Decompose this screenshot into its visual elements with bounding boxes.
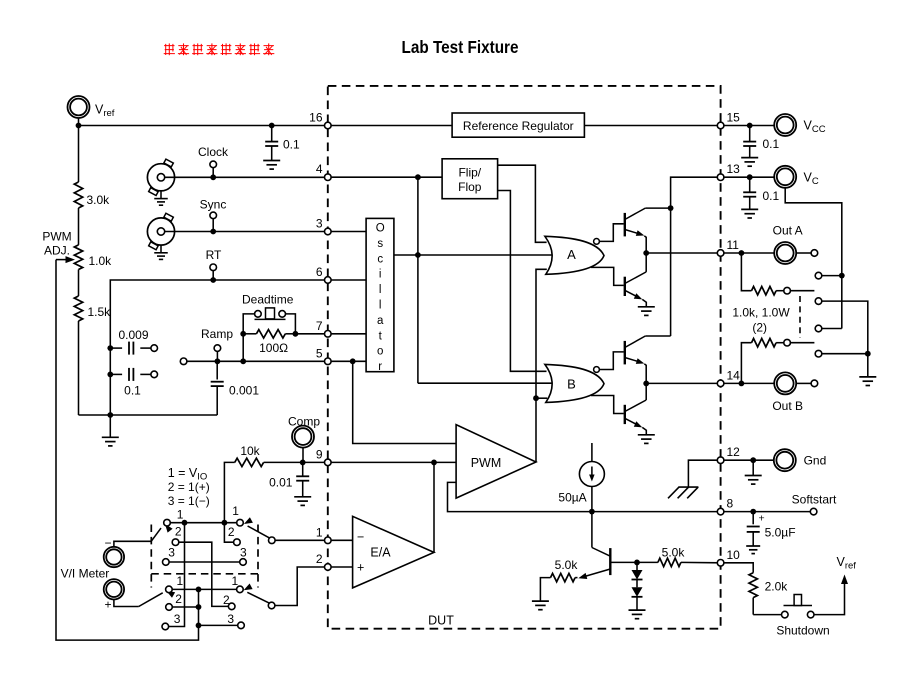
label + (5.0uF): [759, 513, 765, 525]
wire UL1-LL3 vertical: [169, 523, 185, 627]
connector VCC: [774, 114, 796, 136]
svg-text:2.0k: 2.0k: [765, 580, 789, 594]
pin 2: [316, 552, 331, 570]
chassis ground: [668, 487, 698, 498]
label 3.0k: [87, 193, 111, 207]
svg-text:2: 2: [316, 552, 323, 566]
svg-text:(2): (2): [752, 320, 767, 334]
svg-text:3: 3: [174, 612, 181, 626]
label UL 3: [168, 546, 175, 560]
ground (left bus): [102, 415, 119, 446]
label Vref: [95, 103, 115, 120]
contact LL3: [162, 623, 169, 630]
pole switch B: [784, 339, 791, 346]
contact LR3: [238, 622, 245, 629]
wire 2.0k to shutdown: [753, 614, 781, 616]
capacitor 0.1 (pin16): [263, 126, 280, 170]
stub Ramp: [216, 351, 218, 361]
capacitor 0.01: [294, 462, 311, 505]
svg-text:3: 3: [240, 545, 247, 559]
svg-text:Sync: Sync: [200, 198, 227, 212]
label PWM ADJ.: [42, 230, 71, 258]
label Gnd: [804, 453, 827, 467]
svg-text:1.0k, 1.0W: 1.0k, 1.0W: [732, 305, 790, 319]
junction E/A out / PWM in: [431, 460, 437, 466]
wire pin11 to Out A: [721, 252, 775, 254]
svg-text:2: 2: [175, 592, 182, 606]
wire pin4 bus to gate B: [418, 382, 553, 384]
NOR gate A: [545, 236, 604, 274]
contact LL1: [166, 586, 173, 593]
svg-text:6: 6: [316, 265, 323, 279]
connector Out A: [774, 242, 796, 264]
stub gate B lower input: [536, 397, 547, 399]
label UL 1: [177, 508, 184, 522]
label (2): [752, 320, 767, 334]
label Sync: [200, 198, 227, 212]
pin 15: [717, 111, 740, 129]
transistor QB1: [625, 336, 646, 383]
pin 8: [717, 497, 733, 515]
wire E/A output: [433, 462, 435, 552]
label switch legend: [168, 466, 210, 508]
label 10k: [240, 444, 260, 458]
svg-text:A: A: [567, 247, 576, 262]
wire throw2 to gnd rail: [822, 301, 868, 354]
svg-text:14: 14: [727, 368, 741, 382]
op-amp E/A: [353, 516, 434, 588]
svg-text:O: O: [376, 223, 385, 235]
svg-text:1: 1: [232, 574, 239, 588]
contact UL2: [172, 539, 179, 546]
wire pin8 to softstart: [721, 511, 811, 513]
svg-text:10: 10: [727, 548, 741, 562]
box Reference Regulator: [452, 113, 584, 137]
wire pin4 bus vertical: [417, 177, 419, 383]
svg-text:RT: RT: [206, 248, 222, 262]
svg-text:1: 1: [177, 574, 184, 588]
wire Out B to terminal: [796, 382, 811, 384]
label Out B: [772, 399, 803, 413]
junction ground bus / 1.5k: [107, 412, 113, 418]
pin 11: [717, 238, 739, 256]
stub Clock: [212, 168, 214, 178]
svg-text:Clock: Clock: [198, 145, 229, 159]
label LL 3: [174, 612, 181, 626]
svg-text:PWM: PWM: [42, 230, 71, 244]
wire pin3 to oscillator: [328, 231, 366, 233]
potentiometer 1.0k: [74, 245, 82, 270]
wire row1 lower: [172, 588, 236, 590]
resistor 3.0k: [74, 126, 82, 245]
resistor 5.0k (emitter): [532, 573, 578, 609]
title Lab Test Fixture: [402, 37, 519, 57]
svg-text:5.0µF: 5.0µF: [765, 526, 796, 540]
wire minus to selector: [114, 541, 151, 546]
connector V/I meter plus: [104, 579, 124, 599]
svg-text:Comp: Comp: [288, 415, 320, 429]
wire pin 9 rail: [303, 461, 328, 463]
ground QB2 emitter: [638, 435, 655, 444]
connector Gnd: [774, 449, 796, 471]
svg-text:0.009: 0.009: [118, 328, 148, 342]
svg-text:12: 12: [727, 445, 741, 459]
junction pin13 cap: [747, 174, 753, 180]
label LR 2: [223, 593, 230, 607]
svg-text:1.0k: 1.0k: [89, 254, 113, 268]
label UR 1: [232, 504, 239, 518]
BNC connector Clock: [147, 159, 174, 205]
wire pin7 to oscillator: [328, 333, 366, 335]
label Comp: [288, 415, 320, 429]
label 5.0uF: [765, 526, 796, 540]
capacitor 0.1 (VCC): [741, 126, 758, 167]
pin 16: [309, 111, 331, 129]
throw 3: [815, 325, 822, 332]
svg-text:a: a: [377, 315, 384, 327]
svg-text:5: 5: [316, 346, 323, 360]
ground QA2 emitter: [638, 307, 655, 316]
wire pin6 to oscillator: [328, 279, 366, 281]
resistor 5.0k (base): [637, 558, 721, 566]
connector Out B: [774, 372, 796, 394]
pin 10: [717, 548, 740, 566]
svg-text:Ramp: Ramp: [201, 327, 233, 341]
svg-text:13: 13: [727, 162, 741, 176]
wire pin5 to oscillator: [328, 360, 366, 362]
DUT dashed box: [328, 86, 721, 629]
selector arm upper-right: [244, 517, 270, 538]
selector arm lower-left: [139, 591, 175, 607]
lever switch A: [790, 290, 814, 292]
wire node A to pin 11: [646, 252, 720, 254]
wire pin16 to refreg: [328, 125, 452, 127]
svg-text:10k: 10k: [240, 444, 260, 458]
selector arm upper-left: [151, 524, 172, 541]
junction 0.1 left: [107, 372, 113, 378]
contact UR2: [234, 539, 241, 546]
wire Vref to pin 16: [79, 125, 328, 127]
svg-text:V/I Meter: V/I Meter: [61, 567, 110, 581]
svg-text:ADJ.: ADJ.: [44, 244, 70, 258]
label Shutdown: [776, 624, 829, 638]
pin 14: [717, 368, 740, 386]
svg-text:0.1: 0.1: [283, 138, 300, 152]
pole switch A: [784, 287, 791, 294]
wire ground bus to 0.001: [110, 414, 217, 416]
wire pin 5 rail: [187, 360, 328, 362]
capacitor 0.009: [110, 342, 151, 355]
junction deadtime/pin5: [240, 358, 246, 364]
wire pin5 to PWM ramp input: [353, 361, 456, 443]
resistor 1.5k: [74, 270, 82, 416]
contact UR1: [237, 519, 244, 526]
svg-text:15: 15: [727, 111, 741, 125]
pot wiper arrow: [56, 256, 75, 263]
label LR 3: [227, 612, 234, 626]
wire pivot to pin 1: [275, 539, 328, 541]
svg-text:7: 7: [316, 319, 323, 333]
wire pin4 to flipflop: [328, 176, 442, 178]
wire Out A to terminal: [796, 252, 811, 254]
comparator PWM: [456, 425, 536, 499]
label V/I Meter: [61, 567, 110, 581]
wire gate B lower tap: [591, 396, 624, 414]
label Ramp: [201, 327, 233, 341]
BNC connector Sync: [147, 213, 174, 259]
transistor QB2: [625, 400, 647, 435]
pushbutton Shutdown: [782, 595, 815, 618]
junction comp node: [300, 460, 306, 466]
junction out B: [739, 381, 745, 387]
junction 0.009 left: [107, 345, 113, 351]
wire deadtime left drop: [242, 334, 244, 362]
wire QB1 collector: [645, 335, 670, 337]
label 1.0k 1.0W: [732, 305, 790, 319]
wire shutdown to Vref arrow: [814, 583, 845, 615]
throw 2: [815, 298, 822, 305]
wire meter bus: [56, 260, 199, 640]
label Oscillator: [376, 223, 385, 374]
red watermark text: [164, 43, 275, 55]
svg-text:16: 16: [309, 111, 323, 125]
capacitor 0.1 (left): [110, 368, 151, 381]
linkage switch A-B dashed: [799, 296, 801, 338]
junction deadtime right: [293, 331, 299, 337]
label LL 1: [177, 574, 184, 588]
svg-text:+: +: [759, 513, 765, 525]
wire pivot to pin 2: [275, 567, 328, 606]
pin 13: [717, 162, 740, 180]
junction bus row3: [196, 623, 202, 629]
wire pwm out to gate A input: [536, 269, 547, 462]
junction Ramp stub: [215, 358, 221, 364]
svg-text:c: c: [377, 253, 383, 265]
label 0.01: [269, 475, 293, 489]
wire gate A bubble to upper base: [599, 224, 623, 242]
diode D1: [632, 562, 643, 579]
svg-text:DUT: DUT: [428, 614, 454, 628]
svg-text:E/A: E/A: [370, 545, 391, 559]
wire pin9 rail to PWM: [328, 461, 456, 463]
contact UL1: [164, 519, 171, 526]
svg-text:Shutdown: Shutdown: [776, 624, 829, 638]
wire VC to switch rail: [785, 188, 842, 329]
label VCC: [804, 119, 826, 136]
pin 4: [316, 162, 331, 180]
current source 50uA: [579, 443, 604, 512]
throw 4: [815, 350, 822, 357]
label 5.0k emitter: [555, 558, 579, 572]
resistor 100ohm: [243, 330, 295, 338]
junction Sync stub: [210, 229, 216, 235]
svg-text:50µA: 50µA: [558, 491, 586, 505]
junction 0.1 cap tap: [269, 123, 275, 129]
contact LR1: [237, 586, 244, 593]
throw 1: [815, 272, 822, 279]
capacitor 5.0uF: [746, 512, 760, 554]
svg-text:2: 2: [228, 525, 235, 539]
node output A: [643, 250, 649, 256]
junction pin15 cap: [747, 123, 753, 129]
terminal 0.009: [151, 345, 158, 352]
wire pin13 rail: [671, 177, 721, 336]
label Vref (right): [837, 555, 857, 572]
svg-text:PWM: PWM: [471, 456, 502, 470]
ground (pin12): [745, 460, 762, 484]
svg-text:8: 8: [727, 497, 734, 511]
junction pin4 bus: [415, 174, 421, 180]
junction out A: [739, 250, 745, 256]
test point RT: [210, 264, 217, 271]
svg-text:11: 11: [727, 238, 740, 252]
wire pin14 to Out B: [721, 382, 775, 384]
svg-text:Lab Test Fixture: Lab Test Fixture: [402, 37, 519, 57]
pin 12: [717, 445, 740, 463]
wire pin10 to 2.0k: [721, 563, 754, 573]
junction Vref node: [76, 123, 82, 129]
wire node B to pin 14: [646, 382, 720, 384]
stub RT: [212, 271, 214, 280]
svg-text:l: l: [379, 300, 382, 312]
svg-text:1: 1: [316, 525, 323, 539]
wire gate B bubble to upper base: [599, 352, 623, 370]
label Softstart: [792, 492, 837, 506]
label 50uA: [558, 491, 586, 505]
label LL 2: [175, 592, 182, 606]
svg-text:i: i: [379, 269, 382, 281]
wire QA2 collector: [645, 253, 647, 272]
wire QB2 collector: [645, 383, 647, 400]
test point Clock: [210, 161, 217, 168]
wire throw4 to gnd rail: [822, 353, 868, 355]
junction 50uA / softstart: [589, 509, 595, 515]
svg-text:5.0k: 5.0k: [662, 546, 686, 560]
wire throw3 to VC rail: [822, 328, 842, 330]
wire pin1 to E/A inv: [328, 539, 353, 541]
pushbutton Deadtime: [243, 308, 295, 334]
svg-text:+: +: [105, 598, 112, 612]
label DUT: [428, 614, 454, 628]
svg-text:1: 1: [232, 504, 239, 518]
svg-text:Out A: Out A: [773, 224, 803, 238]
svg-text:o: o: [377, 346, 383, 358]
contact UL3: [163, 559, 170, 566]
label Clock: [198, 145, 229, 159]
svg-text:+: +: [357, 561, 364, 575]
wire row3 lower: [199, 624, 238, 626]
label minus: [105, 536, 112, 550]
wire row1 upper: [170, 522, 236, 524]
wire row2 lower: [172, 606, 198, 608]
wire plus to selector: [114, 600, 139, 607]
wire pin2 to E/A noninv: [328, 566, 353, 568]
wire pin12 to Gnd: [721, 459, 775, 461]
box Oscillator: [366, 218, 394, 371]
wire gate A lower tap: [591, 267, 624, 285]
svg-text:Out B: Out B: [772, 399, 803, 413]
wire oscillator output: [394, 254, 418, 256]
junction bus row2: [196, 604, 202, 610]
contact LR2: [228, 603, 235, 610]
junction bus row1: [196, 587, 202, 593]
junction Clock stub: [210, 174, 216, 180]
svg-text:0.01: 0.01: [269, 475, 293, 489]
pin 7: [316, 319, 331, 337]
junction gnd conn: [750, 457, 756, 463]
label 0.1 (pin16 cap): [283, 138, 300, 152]
svg-text:0.1: 0.1: [124, 384, 141, 398]
junction RT stub: [210, 277, 216, 283]
label plus: [105, 598, 112, 612]
pin 9: [316, 447, 331, 465]
pin 5: [316, 346, 331, 364]
contact LL2: [166, 604, 173, 611]
terminal Out B: [811, 380, 818, 387]
test point Sync: [210, 212, 217, 219]
test point Ramp: [214, 345, 221, 352]
svg-text:Flip/: Flip/: [458, 166, 481, 180]
svg-text:Reference Regulator: Reference Regulator: [463, 119, 574, 133]
svg-text:2: 2: [175, 525, 182, 539]
transistor QA2: [625, 272, 647, 307]
svg-text:Deadtime: Deadtime: [242, 293, 294, 307]
wire pin15 to VCC: [721, 125, 775, 127]
wire throw1 to VC rail: [822, 275, 842, 277]
svg-text:l: l: [379, 284, 382, 296]
terminal ramp-wire left end: [180, 358, 187, 365]
label 0.1 VC: [763, 189, 780, 203]
diode D2: [632, 580, 643, 597]
label Deadtime: [242, 293, 294, 307]
resistor 10k: [224, 458, 302, 523]
stub Sync: [212, 219, 214, 232]
wire UL2 to LR2: [179, 542, 229, 606]
svg-text:r: r: [378, 361, 382, 373]
svg-text:1.5k: 1.5k: [88, 305, 112, 319]
junction pin5/pwm: [350, 358, 356, 364]
pivot lower-right selector: [268, 602, 275, 609]
wire flipflop out1 to gate A: [498, 165, 547, 242]
resistor 1.0k 1.0W (B): [741, 339, 783, 384]
svg-text:s: s: [377, 238, 383, 250]
connector Vref: [68, 96, 90, 126]
junction gnd rail: [865, 351, 871, 357]
svg-text:9: 9: [316, 447, 323, 461]
wire bus to UR2: [224, 523, 233, 543]
label RT: [206, 248, 222, 262]
svg-text:0.1: 0.1: [763, 137, 780, 151]
svg-text:0.001: 0.001: [229, 384, 259, 398]
junction VC rail / throw1: [839, 273, 845, 279]
resistor 1.0k 1.0W (A): [741, 253, 783, 295]
junction softstart cap: [750, 509, 756, 515]
svg-text:2: 2: [223, 593, 230, 607]
svg-text:−: −: [357, 530, 364, 544]
svg-text:4: 4: [316, 162, 323, 176]
svg-text:3: 3: [227, 612, 234, 626]
connector V/I meter minus: [104, 547, 124, 567]
label UR 2: [228, 525, 235, 539]
label 1.0k: [89, 254, 113, 268]
label Out A: [773, 224, 803, 238]
capacitor 0.1 (VC): [741, 177, 758, 218]
svg-text:3 = 1(−): 3 = 1(−): [168, 494, 210, 508]
svg-text:3: 3: [168, 546, 175, 560]
svg-text:1: 1: [177, 508, 184, 522]
contact UR3: [240, 559, 247, 566]
wire row3 upper: [169, 561, 240, 563]
